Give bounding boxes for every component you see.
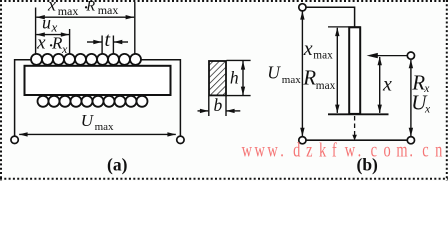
resistor body core bbox=[25, 66, 171, 95]
label U_max (b) bbox=[267, 63, 301, 86]
svg-text:x: x bbox=[424, 104, 431, 116]
wiper position dashed line bbox=[352, 116, 357, 141]
terminal (a) right bbox=[177, 136, 184, 143]
wire right (a) bbox=[141, 60, 181, 136]
svg-text:R: R bbox=[302, 65, 316, 89]
label R_x bbox=[411, 71, 430, 96]
svg-text:x: x bbox=[36, 33, 46, 54]
dimension x_max/R_max bbox=[335, 28, 339, 114]
dimension U_max arrow bbox=[19, 132, 176, 136]
label x_max bbox=[303, 38, 333, 62]
svg-text:R: R bbox=[85, 0, 95, 14]
svg-text:u: u bbox=[42, 12, 51, 32]
dimension b arrows bbox=[198, 109, 241, 113]
dimension u_x arrow bbox=[36, 32, 69, 36]
svg-text:U: U bbox=[81, 111, 95, 130]
dimension h extension lines bbox=[227, 60, 251, 95]
svg-text:max: max bbox=[98, 3, 119, 17]
dimension R_x/U_x bbox=[409, 60, 413, 137]
svg-text:x: x bbox=[303, 38, 313, 60]
label x_max * R_max bbox=[47, 0, 118, 19]
dimension h arrow bbox=[241, 61, 245, 95]
svg-text:max: max bbox=[58, 4, 79, 18]
wiper arrow bbox=[367, 53, 408, 58]
label u_x bbox=[42, 12, 58, 34]
wire left (a) bbox=[15, 60, 32, 136]
label U_x bbox=[411, 90, 431, 115]
svg-text:h: h bbox=[230, 67, 239, 87]
bottom reference line bbox=[328, 113, 389, 115]
winding top (10 turns) bbox=[31, 54, 141, 65]
svg-text:max: max bbox=[316, 80, 336, 92]
wire top (b) bbox=[306, 7, 355, 26]
terminal (b) bottom-right bbox=[407, 137, 414, 144]
svg-text:x: x bbox=[51, 19, 58, 34]
dimension x bbox=[378, 57, 382, 114]
potentiometer body bbox=[349, 27, 360, 114]
label U_max (a) bbox=[81, 111, 114, 133]
terminal (b) top bbox=[299, 4, 306, 11]
terminal (b) bottom-left bbox=[299, 137, 306, 144]
extension line top of element bbox=[328, 26, 361, 28]
svg-text:U: U bbox=[267, 63, 281, 83]
svg-text:max: max bbox=[313, 50, 333, 62]
svg-text:max: max bbox=[95, 121, 114, 133]
dimension U_max (b) bbox=[300, 11, 304, 136]
label x*R_x bbox=[36, 33, 68, 57]
terminal (b) wiper bbox=[407, 52, 414, 59]
bottom wire (b) bbox=[306, 139, 407, 141]
wire cross-section hatched bbox=[209, 61, 226, 95]
winding bottom (10 turns) bbox=[38, 96, 148, 107]
dimension t arrows bbox=[87, 40, 128, 44]
terminal (a) left bbox=[11, 136, 18, 143]
label R_max bbox=[302, 65, 335, 91]
svg-text:b: b bbox=[214, 95, 223, 115]
svg-text:t: t bbox=[105, 29, 111, 51]
svg-text:max: max bbox=[282, 74, 301, 86]
dimension x_max*R_max extension lines bbox=[36, 2, 135, 54]
dimension b extension lines bbox=[209, 96, 226, 116]
dimension u_x extension line bbox=[69, 29, 71, 54]
dimension t extension lines bbox=[102, 36, 113, 54]
dotted page border bbox=[0, 0, 448, 181]
svg-text:x: x bbox=[382, 74, 392, 96]
svg-text:(a): (a) bbox=[107, 154, 128, 174]
dimension x_max*R_max arrow bbox=[36, 15, 134, 19]
